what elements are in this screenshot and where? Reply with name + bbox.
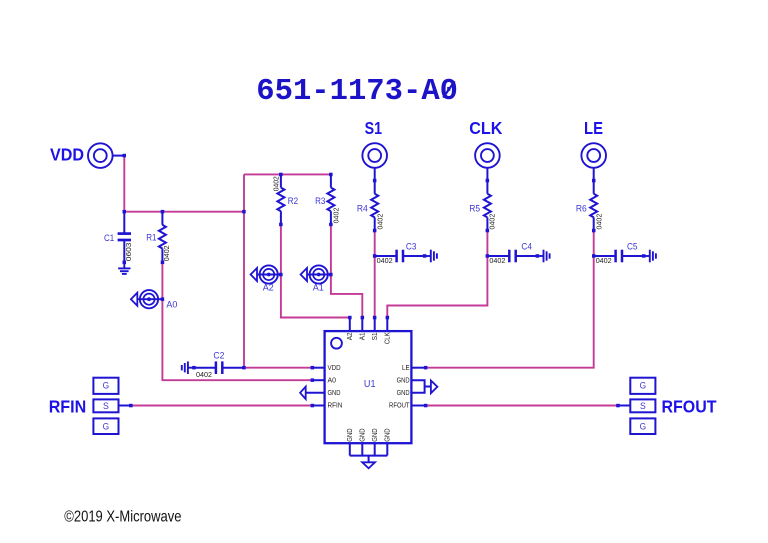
svg-text:RFIN: RFIN <box>49 397 86 417</box>
svg-text:0402: 0402 <box>596 256 612 265</box>
resistor R3 <box>327 174 334 224</box>
svg-text:VDD: VDD <box>328 363 342 372</box>
U1 pin-1 indicator circle <box>331 338 342 349</box>
ground right of C3 <box>425 250 437 263</box>
svg-text:G: G <box>103 381 110 391</box>
U1 bottom GND pins and ground symbol <box>350 443 388 468</box>
wire net S1: R4 bottom to U1 S1 pin <box>374 231 376 318</box>
svg-text:VDD: VDD <box>50 145 84 165</box>
svg-text:R6: R6 <box>576 203 587 213</box>
svg-text:CLK: CLK <box>383 332 392 344</box>
svg-text:C1: C1 <box>104 233 114 243</box>
resistor R5 <box>484 181 491 231</box>
svg-text:RFIN: RFIN <box>328 401 343 410</box>
wire VDD port to corner (vertical drop) <box>123 156 125 212</box>
svg-text:A1: A1 <box>358 332 367 340</box>
port LE <box>581 143 606 180</box>
resistor R2 <box>277 174 284 224</box>
svg-text:A1: A1 <box>313 282 324 292</box>
pad S right RFOUT <box>630 399 655 412</box>
pad G upper right <box>630 378 655 394</box>
svg-text:GND: GND <box>370 428 379 442</box>
svg-text:GND: GND <box>397 388 410 397</box>
svg-text:G: G <box>640 421 647 431</box>
svg-text:GND: GND <box>397 375 410 384</box>
svg-text:R5: R5 <box>469 203 480 213</box>
svg-text:CLK: CLK <box>469 118 503 138</box>
svg-text:0402: 0402 <box>332 208 341 224</box>
pad S left RFIN <box>93 399 118 412</box>
capacitor C4 <box>487 250 537 263</box>
svg-text:LE: LE <box>402 363 410 372</box>
capacitor C2 <box>194 361 244 374</box>
wire VDD top rail to R2 R3 <box>244 173 331 175</box>
svg-text:S1: S1 <box>370 332 379 340</box>
wire main VDD horizontal rail <box>124 211 244 213</box>
op IC U1 body <box>325 331 412 443</box>
svg-text:R2: R2 <box>288 196 298 206</box>
svg-text:0402: 0402 <box>162 245 171 261</box>
pad G upper left <box>93 378 118 394</box>
wire VDD vertical riser x=244 <box>243 174 245 367</box>
capacitor C3 <box>375 250 425 263</box>
test point A1 <box>301 265 331 283</box>
svg-text:R3: R3 <box>315 196 325 206</box>
resistor R6 <box>590 181 597 231</box>
svg-text:RFOUT: RFOUT <box>662 397 717 417</box>
svg-text:A0: A0 <box>166 300 177 310</box>
svg-text:LE: LE <box>584 118 603 138</box>
resistor R1 <box>159 212 166 262</box>
wire net RFOUT <box>426 405 618 407</box>
wire VDD rail to U1 VDD pin <box>244 367 312 369</box>
pad G lower right <box>630 418 655 434</box>
wire net LE: R6 bottom to U1 LE pin <box>426 231 594 368</box>
svg-text:S1: S1 <box>365 118 383 138</box>
ground right of C4 <box>537 250 549 263</box>
svg-text:A2: A2 <box>263 282 274 292</box>
resistor R4 <box>371 181 378 231</box>
wire net A2: R2 bottom to U1 A2 pin <box>281 224 350 317</box>
svg-text:0603: 0603 <box>124 243 133 262</box>
svg-text:C4: C4 <box>521 241 532 251</box>
wire net A1: R3 bottom to U1 A1 pin <box>331 224 362 317</box>
svg-text:0402: 0402 <box>489 256 505 265</box>
wire net RFIN <box>131 405 313 407</box>
svg-text:0402: 0402 <box>375 214 384 230</box>
capacitor C5 <box>594 250 644 263</box>
U1 left pin stubs VDD A0 RFIN <box>312 368 325 406</box>
svg-text:0402: 0402 <box>271 176 280 191</box>
svg-text:A0: A0 <box>328 375 337 384</box>
wire net CLK: R5 bottom to U1 CLK pin <box>387 231 487 318</box>
port VDD <box>88 143 124 168</box>
svg-text:0402: 0402 <box>196 370 212 379</box>
svg-text:U1: U1 <box>364 379 376 390</box>
ground right of C5 <box>644 250 656 263</box>
svg-text:GND: GND <box>328 388 341 397</box>
svg-text:0402: 0402 <box>377 256 393 265</box>
svg-text:0402: 0402 <box>594 214 603 230</box>
wire net A0: R1 bottom to U1 A0 pin <box>162 262 312 380</box>
svg-text:C2: C2 <box>213 351 224 361</box>
U1 right GND pins bracket with arrow <box>412 380 438 393</box>
svg-text:651-1173-A0: 651-1173-A0 <box>256 75 458 109</box>
svg-text:S: S <box>640 401 646 411</box>
svg-text:G: G <box>103 421 110 431</box>
test point A2 <box>251 265 281 283</box>
svg-text:©2019 X-Microwave: ©2019 X-Microwave <box>64 509 181 526</box>
ground below C1 <box>118 262 130 274</box>
svg-text:C5: C5 <box>627 241 638 251</box>
pad G lower left <box>93 418 118 434</box>
svg-text:S: S <box>103 401 109 411</box>
svg-text:R4: R4 <box>357 203 368 213</box>
svg-text:GND: GND <box>345 428 354 442</box>
U1 top pin stubs <box>350 318 388 332</box>
svg-text:GND: GND <box>383 428 392 442</box>
U1 left GND pin with arrow <box>300 387 325 399</box>
port CLK <box>475 143 500 180</box>
svg-text:RFOUT: RFOUT <box>389 401 410 410</box>
svg-text:R1: R1 <box>146 233 156 243</box>
title 651-1173-A0 <box>256 75 458 109</box>
svg-text:A2: A2 <box>345 332 354 340</box>
svg-text:C3: C3 <box>406 241 417 251</box>
capacitor C1 <box>118 212 131 262</box>
test point A0 <box>131 290 163 308</box>
U1 right pin stubs LE RFOUT <box>412 368 426 406</box>
svg-text:GND: GND <box>358 428 367 442</box>
ground left of C2 <box>182 361 194 374</box>
port S1 <box>362 143 387 180</box>
svg-text:G: G <box>640 381 647 391</box>
svg-text:0402: 0402 <box>487 214 496 230</box>
